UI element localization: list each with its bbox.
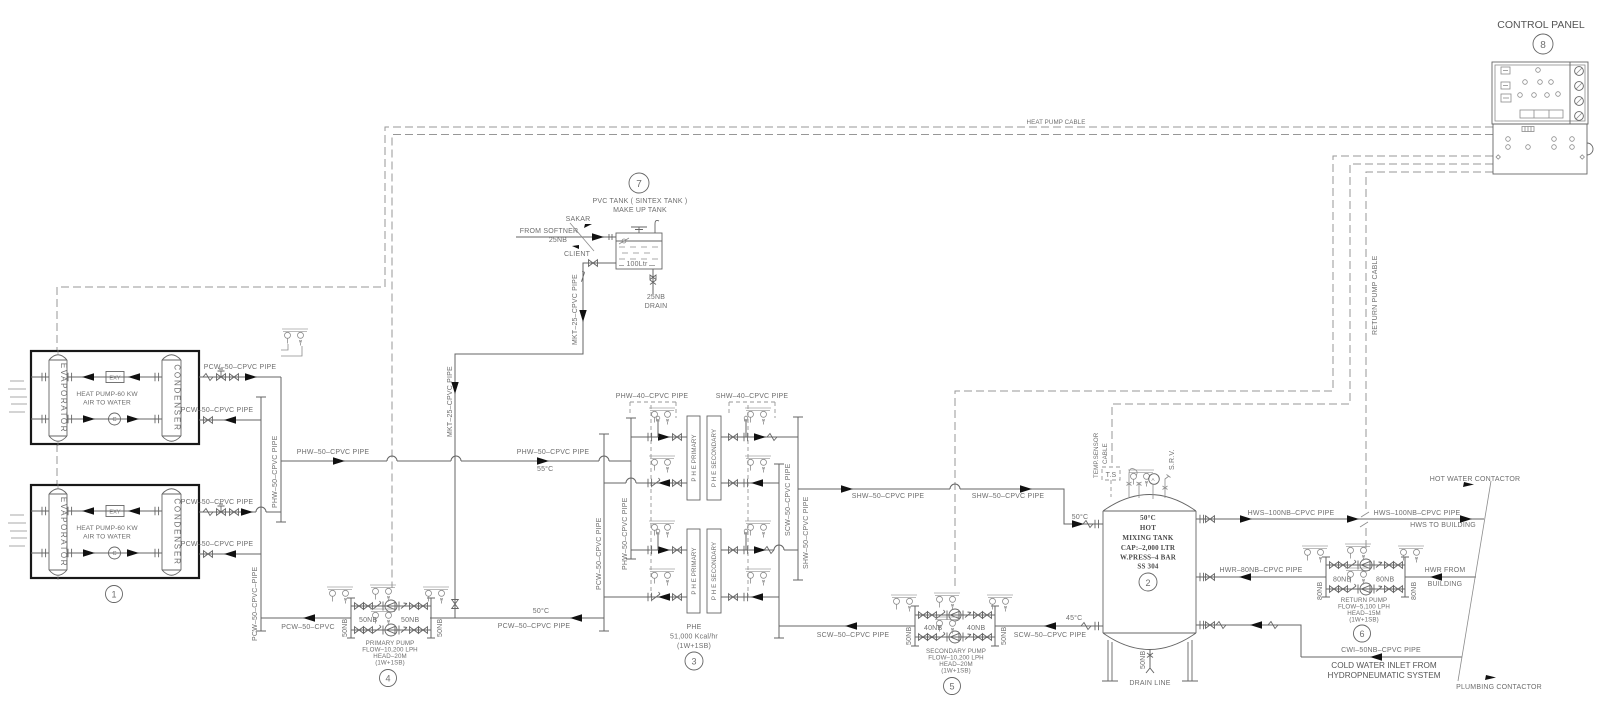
PHE secondary row 3 [721, 529, 798, 554]
svg-text:AIR TO WATER: AIR TO WATER [83, 400, 131, 407]
svg-text:HWS TO BUILDING: HWS TO BUILDING [1410, 522, 1476, 529]
condenser 1 [162, 355, 182, 442]
condenser 2 [162, 489, 182, 576]
PHE PRIMARY box 2 [687, 529, 700, 613]
svg-text:(1W+1SB): (1W+1SB) [941, 668, 971, 675]
svg-text:50NB: 50NB [359, 617, 377, 624]
return pump set 6 [1302, 544, 1424, 600]
svg-text:8: 8 [1540, 40, 1546, 51]
pipe CWI-50NB-CPVC [1301, 647, 1462, 680]
svg-text:COLD WATER INLET FROM: COLD WATER INLET FROM [1331, 661, 1437, 670]
makeup tank drain 25NB [645, 269, 668, 310]
control panel upper cabinet [1492, 62, 1588, 124]
pipe condenser1 outlet PCW-50-CPVC [199, 364, 281, 381]
svg-text:25NB: 25NB [549, 237, 567, 244]
pipe HWR from building [1405, 567, 1476, 588]
svg-text:50°C: 50°C [1072, 513, 1088, 521]
svg-text:AIR TO WATER: AIR TO WATER [83, 534, 131, 541]
svg-text:SCW–50–CPVC PIPE: SCW–50–CPVC PIPE [785, 463, 792, 536]
secondary pump set 5 [891, 593, 1013, 646]
riser A PCW [252, 397, 279, 641]
svg-text:PCW–50–CPVC PIPE: PCW–50–CPVC PIPE [596, 517, 603, 590]
primary pump cable (dashed) [392, 135, 1493, 589]
svg-text:DRAIN LINE: DRAIN LINE [1129, 680, 1170, 687]
secondary pump caption [926, 648, 986, 695]
svg-text:S.R.V.: S.R.V. [1169, 449, 1176, 470]
pipe SCW-50-CPVC PHE side [779, 622, 915, 639]
tank outlet HWS [1196, 510, 1484, 529]
svg-text:PCW–50–CPVC–PIPE: PCW–50–CPVC–PIPE [252, 566, 259, 641]
primary pump caption [362, 640, 418, 687]
svg-text:5: 5 [949, 682, 954, 692]
svg-text:PLUMBING CONTACTOR: PLUMBING CONTACTOR [1456, 684, 1542, 691]
svg-text:PCW–50–CPVC PIPE: PCW–50–CPVC PIPE [181, 499, 254, 506]
PHE label [670, 624, 718, 670]
svg-text:C: C [112, 551, 116, 557]
svg-text:FROM SOFTNER: FROM SOFTNER [520, 228, 578, 235]
svg-text:55°C: 55°C [537, 465, 553, 473]
tank inlet CWI [1196, 621, 1301, 657]
air coil fins unit 2 [8, 515, 27, 546]
pipe SCW-50-CPVC tank side [995, 614, 1103, 639]
svg-text:HEAT PUMP CABLE: HEAT PUMP CABLE [1027, 119, 1086, 126]
temp sensor cable (dashed) [1093, 164, 1493, 497]
return pump caption [1338, 597, 1390, 642]
svg-text:MIXING TANK: MIXING TANK [1122, 534, 1173, 542]
svg-text:EVAPORATOR: EVAPORATOR [59, 363, 68, 433]
svg-text:100Ltr: 100Ltr [626, 261, 648, 268]
SCW header [774, 463, 792, 638]
svg-text:A: A [1151, 477, 1154, 482]
svg-text:PCW–50–CPVC PIPE: PCW–50–CPVC PIPE [181, 541, 254, 548]
svg-text:MKT–25–CPVC PIPE: MKT–25–CPVC PIPE [447, 366, 454, 437]
svg-text:SCW–50–CPVC PIPE: SCW–50–CPVC PIPE [817, 632, 890, 639]
svg-text:HEAT PUMP-60 KW: HEAT PUMP-60 KW [76, 391, 138, 398]
makeup tank 7 balloon [593, 173, 688, 214]
PHE primary row 2 [604, 478, 687, 487]
svg-text:SHW–50–CPVC PIPE: SHW–50–CPVC PIPE [803, 496, 810, 569]
instrument cable primary (dashed) [650, 405, 652, 597]
svg-text:PHW–50–CPVC PIPE: PHW–50–CPVC PIPE [297, 449, 370, 456]
PHE SECONDARY box 2 [707, 529, 721, 613]
svg-text:CONDENSER: CONDENSER [173, 364, 182, 431]
PHE primary row 4 [604, 592, 687, 601]
heat pump unit 1 box [31, 351, 199, 444]
svg-text:PHW–50–CPVC PIPE: PHW–50–CPVC PIPE [622, 497, 629, 570]
svg-text:80NB: 80NB [1317, 582, 1324, 600]
pipe condenser2 outlet PCW-50-CPVC [181, 499, 281, 516]
svg-text:HWR–80NB–CPVC PIPE: HWR–80NB–CPVC PIPE [1220, 567, 1303, 574]
PHE primary row 3 [631, 529, 687, 554]
pipe PCW-50-CPVC pump4 suction [430, 607, 604, 630]
instrument clusters PHE primary [649, 408, 675, 425]
svg-text:PHW–50–CPVC PIPE: PHW–50–CPVC PIPE [272, 435, 279, 508]
svg-text:HOT: HOT [1140, 524, 1156, 532]
makeup tank inlet from softner [516, 216, 629, 258]
svg-text:PCW–50–CPVC: PCW–50–CPVC [281, 624, 335, 631]
evaporator 2 [49, 484, 68, 580]
instrument clusters PHE secondary [745, 408, 771, 425]
riser B PHW [276, 377, 286, 522]
PHE primary row 1 [631, 416, 687, 441]
svg-text:7: 7 [636, 179, 642, 190]
svg-text:2: 2 [1145, 578, 1150, 588]
svg-text:(1W+1SB): (1W+1SB) [1349, 617, 1379, 624]
svg-text:50NB: 50NB [1001, 627, 1008, 645]
tank drain line [1129, 649, 1170, 687]
svg-text:HWS–100NB–CPVC PIPE: HWS–100NB–CPVC PIPE [1248, 510, 1335, 517]
svg-text:80NB: 80NB [1333, 577, 1351, 584]
svg-text:PVC TANK ( SINTEX TANK ): PVC TANK ( SINTEX TANK ) [593, 198, 688, 205]
pipe PHW-50-CPVC main to PHE [281, 449, 631, 473]
svg-text:50NB: 50NB [1140, 651, 1147, 669]
heat pump unit 2 box [31, 485, 199, 578]
svg-text:MAKE UP TANK: MAKE UP TANK [613, 207, 667, 214]
svg-text:PHW–50–CPVC PIPE: PHW–50–CPVC PIPE [517, 449, 590, 456]
instrument cable secondary (dashed) [747, 405, 749, 597]
svg-text:HOT WATER CONTACTOR: HOT WATER CONTACTOR [1430, 476, 1521, 483]
svg-text:CLIENT: CLIENT [564, 251, 591, 258]
svg-text:P H E SECONDARY: P H E SECONDARY [711, 542, 718, 600]
svg-text:HYDROPNEUMATIC SYSTEM: HYDROPNEUMATIC SYSTEM [1327, 671, 1440, 680]
svg-text:50°C: 50°C [533, 607, 549, 615]
secondary pump cable (dashed) [955, 156, 1493, 588]
svg-text:50°C: 50°C [1140, 514, 1156, 522]
evaporator 1 [49, 350, 68, 446]
T.S temperature sensor box [1102, 467, 1120, 480]
svg-text:51,000 Kcal/hr: 51,000 Kcal/hr [670, 634, 718, 641]
svg-text:CAP:–2,000 LTR: CAP:–2,000 LTR [1121, 544, 1176, 552]
svg-text:80NB: 80NB [1411, 582, 1418, 600]
riser PCW at PHE [599, 434, 609, 631]
svg-text:CONTROL PANEL: CONTROL PANEL [1497, 19, 1585, 31]
pipe condenser2 inlet PCW-50-CPVC [181, 541, 261, 558]
mixing tank 2 body [1103, 495, 1196, 650]
svg-text:45°C: 45°C [1066, 614, 1082, 622]
svg-text:W.PRESS–4 BAR: W.PRESS–4 BAR [1120, 554, 1177, 562]
svg-text:40NB: 40NB [967, 625, 985, 632]
PHW header [626, 418, 636, 559]
svg-text:(1W+1SB): (1W+1SB) [375, 660, 405, 667]
pipe PCW-50 pump4 discharge [261, 614, 351, 631]
PHE PRIMARY box 1 [687, 416, 700, 500]
tank interior label [1120, 514, 1177, 591]
control panel lower cabinet [1493, 124, 1593, 174]
svg-text:50NB: 50NB [906, 627, 913, 645]
contactor scope line [1430, 476, 1542, 691]
svg-text:P H E PRIMARY: P H E PRIMARY [691, 547, 698, 594]
svg-text:BUILDING: BUILDING [1428, 581, 1463, 588]
svg-text:DRAIN: DRAIN [645, 303, 668, 310]
svg-text:TEMP.SENSOR: TEMP.SENSOR [1093, 432, 1100, 478]
svg-text:EXY: EXY [109, 376, 120, 382]
tank inlet HWR [1196, 567, 1326, 581]
compressor line unit 1 [31, 413, 162, 425]
svg-text:SS 304: SS 304 [1137, 563, 1159, 571]
svg-text:C: C [112, 417, 116, 423]
tank legs [1102, 640, 1198, 681]
PHE SECONDARY box 1 [707, 416, 721, 500]
return pump cable (dashed) [1360, 172, 1493, 552]
PHE secondary row 2 [721, 479, 779, 487]
EXY line unit 2 [31, 506, 162, 517]
compressor line unit 2 [31, 547, 162, 559]
svg-text:HWR FROM: HWR FROM [1425, 567, 1466, 574]
svg-text:HWS–100NB–CPVC PIPE: HWS–100NB–CPVC PIPE [1374, 510, 1461, 517]
pipe SHW-50-CPVC main to tank [798, 484, 1103, 528]
svg-text:6: 6 [1359, 629, 1364, 639]
svg-text:SHW–50–CPVC PIPE: SHW–50–CPVC PIPE [972, 493, 1045, 500]
svg-text:1: 1 [111, 590, 116, 600]
control panel title [1497, 19, 1585, 54]
svg-text:CONDENSER: CONDENSER [173, 498, 182, 565]
svg-text:PHW–40–CPVC PIPE: PHW–40–CPVC PIPE [616, 393, 689, 400]
svg-text:SHW–50–CPVC PIPE: SHW–50–CPVC PIPE [852, 493, 925, 500]
svg-text:40NB: 40NB [924, 625, 942, 632]
pipe MKT-25-CPVC from makeup tank [447, 260, 616, 618]
air coil fins unit 1 [8, 381, 27, 412]
svg-text:SAKAR: SAKAR [566, 216, 591, 223]
svg-text:4: 4 [385, 674, 390, 684]
svg-text:80NB: 80NB [1376, 577, 1394, 584]
svg-text:50NB: 50NB [437, 619, 444, 637]
svg-text:PHE: PHE [687, 624, 702, 631]
svg-text:50NB: 50NB [401, 617, 419, 624]
PHE secondary row 4 [721, 593, 779, 601]
svg-text:SCW–50–CPVC PIPE: SCW–50–CPVC PIPE [1014, 632, 1087, 639]
PHE secondary row 1 [721, 416, 798, 441]
svg-text:RETURN PUMP CABLE: RETURN PUMP CABLE [1372, 255, 1379, 335]
svg-text:3: 3 [691, 657, 696, 667]
makeup tank body [616, 220, 662, 269]
PHE 40NB label lines [616, 393, 789, 418]
svg-text:PCW–50–CPVC PIPE: PCW–50–CPVC PIPE [498, 623, 571, 630]
SHW header [793, 417, 810, 580]
svg-text:PCW–50–CPVC PIPE: PCW–50–CPVC PIPE [204, 364, 277, 371]
svg-text:P H E SECONDARY: P H E SECONDARY [711, 429, 718, 487]
balloon 1 [106, 586, 123, 603]
primary pump set 4 [327, 585, 449, 638]
svg-text:50NB: 50NB [342, 619, 349, 637]
pipe condenser1 inlet PCW-50-CPVC [181, 407, 261, 424]
svg-text:P H E PRIMARY: P H E PRIMARY [691, 434, 698, 481]
svg-text:EXY: EXY [109, 510, 120, 516]
svg-text:CABLE: CABLE [1102, 443, 1109, 464]
svg-text:EVAPORATOR: EVAPORATOR [59, 497, 68, 567]
instrument cluster riser top [281, 329, 308, 356]
svg-text:MKT–25–CPVC PIPE: MKT–25–CPVC PIPE [572, 274, 579, 345]
svg-text:25NB: 25NB [647, 294, 665, 301]
heat pump cable (dashed) [57, 119, 1493, 485]
svg-text:SHW–40–CPVC PIPE: SHW–40–CPVC PIPE [716, 393, 789, 400]
svg-text:T.S: T.S [1106, 472, 1117, 479]
svg-text:(1W+1SB): (1W+1SB) [677, 643, 711, 650]
tank top fittings [1127, 449, 1177, 499]
svg-text:HEAT PUMP-60 KW: HEAT PUMP-60 KW [76, 525, 138, 532]
svg-text:PCW–50–CPVC PIPE: PCW–50–CPVC PIPE [181, 407, 254, 414]
svg-text:CWI–50NB–CPVC PIPE: CWI–50NB–CPVC PIPE [1341, 647, 1421, 654]
EXY line unit 1 [31, 372, 162, 383]
